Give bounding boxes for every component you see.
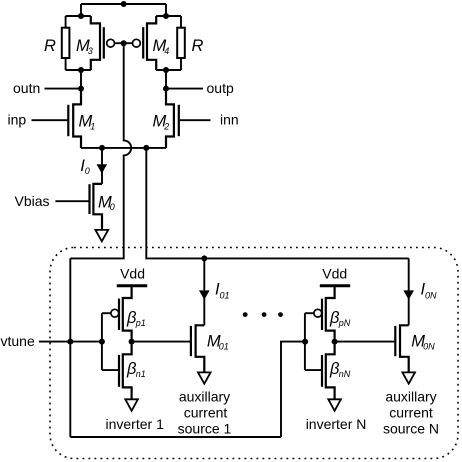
svg-text:2: 2 [163,122,169,132]
wire left drop to M3/R combo [80,4,82,16]
svg-text:inp: inp [8,111,27,127]
power rail Vdd bar (inverter 1) [117,284,147,287]
svg-text:outp: outp [207,80,234,96]
transistor beta_nN [322,342,351,400]
wire inverter 1 input vertical [101,313,103,370]
svg-text:vtune: vtune [1,333,35,349]
wire outp lead [166,88,203,90]
wire M3 combo top [66,15,91,17]
node M4 combo bottom [163,67,169,73]
svg-text:R: R [192,37,204,55]
wire vtune lead [39,341,102,343]
node M3 combo bottom [78,67,84,73]
transistor beta_p1 [111,286,146,342]
wire riser to inverter N input [281,342,305,437]
svg-text:01: 01 [219,342,229,352]
transistor M01 [191,325,229,372]
wire tail branch down to aux rail [146,148,408,259]
current arrow I01 [199,290,210,299]
wire bubble stub to input [102,312,111,314]
node inverter 1 output [129,339,135,345]
svg-text:outn: outn [13,80,40,96]
wire M3 combo bottom [66,69,91,71]
resistor R2 [177,16,203,70]
transistor beta_n1 [119,342,146,400]
transistor M4 [133,16,170,70]
node rail M01 tap [201,255,207,261]
svg-text:Vbias: Vbias [15,193,50,209]
node inverter 1 input [99,339,105,345]
svg-text:nN: nN [339,369,351,379]
ground under inverter N [328,399,341,411]
wire tail line [81,147,166,149]
wire outn lead [45,88,82,90]
wire combo to outp node [165,70,167,89]
svg-text:auxillary: auxillary [385,389,436,405]
ground under inverter 1 [125,399,138,411]
wire bubble stub to input N [305,312,314,314]
svg-text:pN: pN [338,318,351,328]
wire inverter 1 output to M01 gate [132,341,191,343]
node inverter N input [302,339,308,345]
svg-text:R: R [44,37,56,55]
transistor M1 [68,89,95,148]
svg-text:n1: n1 [136,369,146,379]
svg-text:0N: 0N [425,290,437,300]
svg-text:0N: 0N [423,342,435,352]
ground under M0 [95,230,108,241]
wire top supply rail [81,3,166,5]
svg-text:3: 3 [88,46,93,56]
wire M0N drain drop [408,258,410,325]
node top rail junction [121,1,127,7]
current arrow I0 [97,164,108,173]
wire gates vertical with hop over tail [70,43,131,258]
wire I0 drop [101,148,103,184]
svg-text:4: 4 [164,46,169,56]
svg-text:auxillary: auxillary [179,389,230,405]
svg-text:0: 0 [85,166,90,176]
wire right drop to M4/R combo [165,4,167,16]
wire M4 combo bottom [156,69,181,71]
wire bottom bus [70,436,281,438]
wire M01 drain drop [203,258,205,325]
transistor beta_pN [314,286,351,342]
node vtune/left vertical [67,339,73,345]
wire Vbias lead [55,200,89,202]
wire beta_n1 gate stub [102,369,119,371]
svg-text:1: 1 [90,122,95,132]
svg-text:source 1: source 1 [178,421,232,437]
node tail right [143,145,149,151]
node gates junction [121,40,127,46]
transistor M0 [90,184,115,230]
resistor R1 [44,16,69,70]
wire vtune vertical (left side) [69,258,71,437]
wire inp lead [32,119,69,121]
svg-text:Vdd: Vdd [120,266,145,282]
wire combo to outn node [80,70,82,89]
svg-text:inn: inn [220,111,239,127]
wire beta_nN gate stub [305,369,322,371]
svg-text:p1: p1 [135,318,146,328]
svg-text:current: current [389,405,433,421]
node tail left [99,145,105,151]
wire gates of M3,M4 [114,42,132,44]
transistor M0N [395,325,435,372]
transistor M3 [76,16,115,70]
node M4 combo top [163,13,169,19]
ground under M01 [198,372,211,383]
current arrow I0N [403,290,414,299]
wire inn lead [179,119,211,121]
node inverter N output [332,339,338,345]
wire inverter N input vertical [304,313,306,370]
svg-text:inverter N: inverter N [306,416,367,432]
svg-text:Vdd: Vdd [322,266,347,282]
svg-text:current: current [184,405,228,421]
ground under M0N [402,372,415,383]
node outp [163,86,169,92]
dashed boundary box [50,248,458,459]
svg-text:0: 0 [110,202,115,212]
svg-text:01: 01 [220,290,230,300]
node outn [78,86,84,92]
wire M4 combo top [156,15,181,17]
wire inverter N output to M0N gate [335,341,396,343]
transistor M2 [153,89,179,148]
svg-text:inverter 1: inverter 1 [106,416,165,432]
power rail Vdd bar (inverter N) [320,284,350,287]
node M3 combo top [78,13,84,19]
ellipsis dots [243,312,248,317]
svg-text:source N: source N [383,421,439,437]
